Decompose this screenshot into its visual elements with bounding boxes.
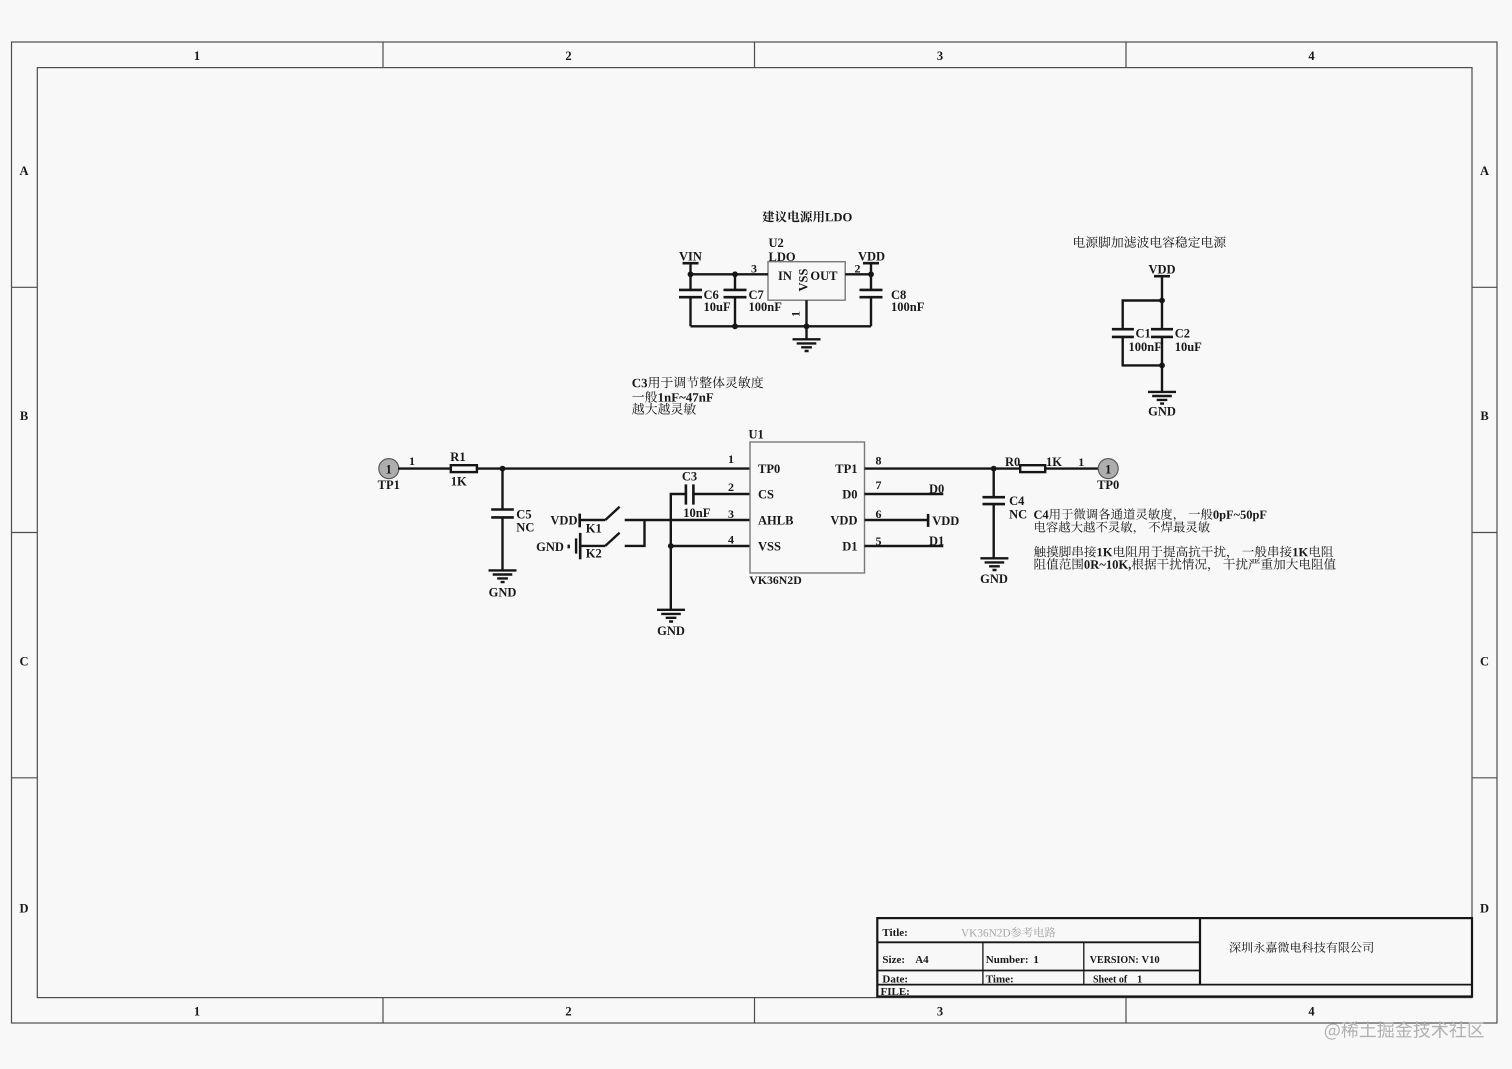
capacitor C1 xyxy=(1112,327,1162,355)
svg-text:VDD: VDD xyxy=(1148,263,1175,277)
node C1C2 bottom junction xyxy=(1159,363,1165,369)
power port VDD at U2 output xyxy=(858,250,885,275)
svg-text:V10: V10 xyxy=(1142,955,1160,966)
svg-text:4: 4 xyxy=(1308,1005,1315,1019)
capacitor C6 xyxy=(679,274,731,326)
capacitor C4 xyxy=(983,469,1028,559)
svg-text:B: B xyxy=(20,409,28,423)
power port VDD at U1 pin 6 xyxy=(865,514,960,528)
svg-text:3: 3 xyxy=(728,507,734,521)
svg-text:C1: C1 xyxy=(1136,327,1151,341)
node rail pin1 junction xyxy=(804,323,810,329)
svg-text:4: 4 xyxy=(728,533,734,547)
svg-text:Sheet of: Sheet of xyxy=(1093,974,1128,985)
svg-text:GND: GND xyxy=(489,585,517,599)
svg-text:K1: K1 xyxy=(586,522,602,536)
wire LDO ground rail xyxy=(691,325,872,327)
svg-text:D1: D1 xyxy=(842,540,857,554)
svg-text:2: 2 xyxy=(728,480,734,494)
capacitor C7 xyxy=(724,274,783,326)
svg-text:D: D xyxy=(19,902,28,916)
svg-text:R1: R1 xyxy=(450,450,465,464)
svg-text:GND: GND xyxy=(1148,405,1176,419)
svg-text:A: A xyxy=(1480,164,1489,178)
node VSS ground junction xyxy=(668,543,674,549)
svg-text:1: 1 xyxy=(409,454,415,468)
svg-text:8: 8 xyxy=(876,454,882,468)
note 电源脚加滤波电容稳定电源 xyxy=(1074,236,1226,248)
svg-text:VSS: VSS xyxy=(758,540,781,554)
wire K2 to AHLB riser xyxy=(625,520,645,546)
note C4 sensitivity text xyxy=(1034,508,1266,534)
wire C1 branch top xyxy=(1123,301,1162,330)
svg-text:100nF: 100nF xyxy=(891,300,925,314)
svg-text:1: 1 xyxy=(1105,462,1111,476)
svg-text:D0: D0 xyxy=(842,487,857,501)
ground below U2 xyxy=(793,326,821,351)
wire U2 pin 2 to VDD xyxy=(845,273,871,275)
svg-text:1: 1 xyxy=(194,1005,200,1019)
testpoint TP1 xyxy=(378,459,400,492)
title block title value VK36N2D参考电路 xyxy=(961,927,1055,937)
svg-text:D0: D0 xyxy=(929,482,944,496)
svg-text:1: 1 xyxy=(728,452,734,466)
svg-text:U2: U2 xyxy=(769,236,784,250)
svg-text:TP0: TP0 xyxy=(1097,478,1119,492)
svg-text:C: C xyxy=(1480,655,1489,669)
svg-text:10uF: 10uF xyxy=(704,300,731,314)
ground port at K2 xyxy=(536,533,580,559)
testpoint TP0 xyxy=(1097,459,1119,492)
node VDD branch junction xyxy=(1159,298,1165,304)
svg-text:1: 1 xyxy=(1033,954,1039,966)
wire R1 to U1 pin 1 xyxy=(477,467,750,469)
watermark 稀土掘金 xyxy=(1325,1021,1484,1039)
node rail C7 junction xyxy=(732,323,738,329)
svg-text:IN: IN xyxy=(778,269,792,283)
wire TP1 to R1 xyxy=(398,467,451,469)
wire U1 pin 5 net D1 xyxy=(865,534,945,548)
svg-text:1: 1 xyxy=(386,462,392,476)
svg-text:B: B xyxy=(1480,409,1488,423)
svg-text:Title:: Title: xyxy=(882,927,907,939)
svg-text:TP1: TP1 xyxy=(378,478,400,492)
svg-text:R0: R0 xyxy=(1005,455,1020,469)
svg-text:1: 1 xyxy=(1137,974,1142,985)
svg-text:U1: U1 xyxy=(749,428,764,442)
node C4 junction xyxy=(991,466,997,472)
switch K2 xyxy=(581,533,620,561)
svg-text:C4: C4 xyxy=(1009,494,1025,508)
svg-text:GND: GND xyxy=(536,540,564,554)
note 建议电源用LDO xyxy=(762,211,851,223)
svg-text:1K: 1K xyxy=(451,475,467,489)
svg-text:7: 7 xyxy=(876,478,882,492)
wire C3 right plate to U1 pin 2 CS xyxy=(693,493,750,495)
svg-text:4: 4 xyxy=(1308,49,1315,63)
svg-text:VK36N2D: VK36N2D xyxy=(749,573,801,587)
wire VIN to U2 pin 3 xyxy=(691,273,769,275)
svg-text:VDD: VDD xyxy=(550,513,577,527)
svg-text:VERSION:: VERSION: xyxy=(1090,955,1139,966)
node C7 top junction xyxy=(732,271,738,277)
svg-text:Number:: Number: xyxy=(986,954,1029,966)
IC U1 VK36N2D body xyxy=(749,428,865,587)
svg-text:3: 3 xyxy=(937,1005,943,1019)
svg-text:1: 1 xyxy=(194,49,200,63)
svg-text:1: 1 xyxy=(789,311,803,317)
svg-text:GND: GND xyxy=(657,624,685,638)
ground below C3 xyxy=(657,610,685,638)
svg-text:2: 2 xyxy=(565,49,571,63)
wire U1 pin 8 to R0 xyxy=(865,467,1021,469)
svg-text:Time:: Time: xyxy=(986,973,1014,985)
svg-text:TP1: TP1 xyxy=(835,462,857,476)
note C3 sensitivity text xyxy=(632,376,763,415)
svg-text:VDD: VDD xyxy=(932,514,959,528)
svg-text:TP0: TP0 xyxy=(758,462,780,476)
svg-text:10uF: 10uF xyxy=(1175,340,1202,354)
wire R0 to TP0 xyxy=(1045,467,1099,469)
svg-text:AHLB: AHLB xyxy=(758,513,793,527)
title block grid xyxy=(877,918,1472,996)
resistor R1 xyxy=(450,450,477,489)
svg-text:C3: C3 xyxy=(682,470,697,484)
capacitor C5 xyxy=(491,469,534,571)
svg-text:OUT: OUT xyxy=(810,269,838,283)
power port VDD at K1 xyxy=(550,513,579,527)
wire U1 pin 7 net D0 xyxy=(865,482,945,496)
power port VIN xyxy=(679,250,702,275)
node C5 junction xyxy=(500,466,506,472)
svg-text:NC: NC xyxy=(1009,508,1027,522)
svg-text:VDD: VDD xyxy=(858,250,885,264)
company name 深圳永嘉微电科技有限公司 xyxy=(1230,942,1374,953)
svg-text:A4: A4 xyxy=(915,954,929,966)
power port VDD at C1C2 xyxy=(1148,263,1175,301)
regulator U2 LDO body xyxy=(768,236,845,300)
svg-text:C: C xyxy=(19,655,28,669)
svg-text:CS: CS xyxy=(758,487,774,501)
svg-text:1K: 1K xyxy=(1046,455,1062,469)
wire C3 left plate down to ground xyxy=(671,494,686,610)
svg-text:D1: D1 xyxy=(929,534,944,548)
wire U2 pin 1 stem xyxy=(805,300,807,326)
svg-text:K2: K2 xyxy=(586,547,602,561)
node VIN junction xyxy=(688,271,694,277)
svg-text:NC: NC xyxy=(516,520,534,534)
capacitor C2 xyxy=(1151,301,1202,366)
note 1K resistor text xyxy=(1034,546,1336,572)
wire C1 branch bottom xyxy=(1123,337,1162,366)
resistor R0 xyxy=(1005,455,1062,472)
ground below C1C2 xyxy=(1148,365,1176,418)
svg-text:C2: C2 xyxy=(1175,327,1190,341)
capacitor C8 xyxy=(860,274,925,326)
svg-text:2: 2 xyxy=(565,1005,571,1019)
svg-text:3: 3 xyxy=(937,49,943,63)
svg-text:FILE:: FILE: xyxy=(881,986,910,998)
svg-text:100nF: 100nF xyxy=(749,300,783,314)
switch K1 xyxy=(581,507,620,536)
wire U1 pin 4 VSS xyxy=(671,545,750,547)
svg-text:D: D xyxy=(1480,902,1489,916)
node VDD junction xyxy=(868,271,874,277)
svg-text:VIN: VIN xyxy=(679,250,702,264)
svg-text:VDD: VDD xyxy=(830,513,857,527)
svg-text:10nF: 10nF xyxy=(683,506,710,520)
svg-text:100nF: 100nF xyxy=(1129,340,1163,354)
svg-text:1: 1 xyxy=(1078,455,1084,469)
ground below C5 xyxy=(489,570,517,599)
svg-text:A: A xyxy=(19,164,28,178)
svg-text:LDO: LDO xyxy=(769,250,796,264)
svg-text:GND: GND xyxy=(980,572,1008,586)
svg-text:VSS: VSS xyxy=(797,268,811,291)
svg-text:Size:: Size: xyxy=(882,954,905,966)
ground below C4 xyxy=(980,558,1008,586)
wire K1 to U1 pin 3 AHLB xyxy=(625,519,750,521)
svg-text:Date:: Date: xyxy=(882,973,908,985)
capacitor C3 xyxy=(682,470,711,520)
